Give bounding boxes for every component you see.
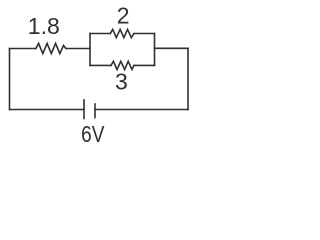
resistor R2 2: [110, 29, 134, 37]
wire node B to right side: [155, 47, 189, 49]
node A left bus of parallel branch: [89, 34, 91, 66]
wire bottom left segment: [10, 109, 85, 111]
wire R1 to parallel node A: [66, 48, 90, 50]
node B right bus of parallel branch: [154, 34, 156, 66]
wire right side down: [187, 48, 189, 109]
svg-text:1.8: 1.8: [28, 13, 60, 39]
wire bottom branch right: [134, 64, 155, 66]
svg-text:2: 2: [117, 3, 130, 29]
wire top branch left: [90, 33, 110, 35]
wire left side up: [9, 49, 11, 110]
resistor R3 3: [111, 61, 134, 69]
battery BT1 plate short: [94, 104, 96, 118]
resistor R1 1.8: [36, 43, 66, 53]
wire top branch right: [134, 33, 155, 35]
battery BT1 plate long: [83, 100, 85, 119]
svg-text:6V: 6V: [81, 122, 104, 147]
wire bottom branch left: [90, 64, 111, 66]
wire bottom right segment: [95, 109, 188, 111]
wire top-left segment: [10, 48, 36, 50]
svg-text:3: 3: [115, 69, 128, 95]
